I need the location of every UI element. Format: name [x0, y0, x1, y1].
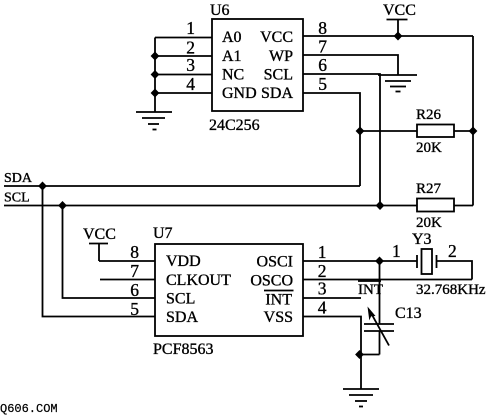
ground symbol under WP: [378, 75, 417, 92]
wire U7 pin 4 VSS down: [303, 317, 361, 355]
ground symbol bottom: [343, 355, 379, 407]
svg-text:1: 1: [392, 241, 401, 261]
wire U6 pin 7 to ground: [303, 55, 398, 75]
wire U7 pin 2 OSCO: [303, 279, 472, 281]
junction at U6 pin2 / left vertical: [151, 52, 160, 61]
svg-text:A1: A1: [222, 48, 242, 65]
svg-text:VDD: VDD: [166, 253, 201, 270]
svg-text:PCF8563: PCF8563: [153, 341, 213, 358]
junction SCL bus / U6 pin6 drop: [376, 201, 385, 210]
svg-text:SDA: SDA: [166, 309, 198, 326]
wire SDA drop to U7 pin5: [43, 186, 156, 317]
svg-text:VCC: VCC: [260, 29, 293, 46]
wire U6 pin 3 stub: [155, 74, 212, 76]
svg-text:SCL: SCL: [166, 291, 195, 308]
svg-text:8: 8: [318, 18, 327, 38]
wire U6 left bus vertical to ground: [154, 38, 156, 113]
svg-text:A0: A0: [222, 29, 242, 46]
svg-text:2: 2: [448, 241, 457, 261]
svg-text:CLKOUT: CLKOUT: [166, 272, 231, 289]
U7 pin name INT with overline: [264, 291, 294, 309]
svg-text:1: 1: [318, 242, 327, 262]
svg-text:OSCO: OSCO: [250, 273, 293, 290]
svg-text:Q606.COM: Q606.COM: [0, 402, 58, 415]
svg-text:U7: U7: [153, 225, 173, 242]
svg-text:VCC: VCC: [383, 2, 416, 19]
svg-text:4: 4: [318, 298, 327, 318]
wire U7 pin 1 OSCI to crystal: [303, 260, 417, 262]
crystal Y3: [417, 249, 437, 274]
wire SDA bus: [4, 185, 360, 187]
svg-text:INT: INT: [265, 292, 292, 309]
resistor R27: [417, 199, 473, 212]
IC U7 body box: [155, 244, 303, 336]
svg-text:3: 3: [318, 279, 327, 299]
svg-text:GND: GND: [222, 85, 257, 102]
ground symbol under U6 left pins: [136, 112, 172, 130]
svg-text:20K: 20K: [416, 215, 442, 231]
junction at R26 left / SDA drop: [356, 127, 365, 136]
junction VSS / C13 / ground: [355, 350, 364, 359]
wire crystal to right vertical: [437, 261, 473, 280]
net label INT with overline: [358, 281, 383, 298]
svg-text:SDA: SDA: [4, 171, 33, 186]
junction at U6 pin4 / left vertical: [151, 89, 160, 98]
junction at U6 pin3 / left vertical: [151, 70, 160, 79]
junction at VCC / pin8 wire: [394, 32, 403, 41]
VCC power symbol top: [383, 2, 416, 36]
wire U6 pin 8 (VCC rail): [303, 35, 473, 37]
junction at R26 right / VCC rail: [469, 127, 478, 136]
IC U6 body box: [212, 19, 303, 111]
svg-text:4: 4: [186, 74, 195, 94]
svg-text:U6: U6: [210, 2, 230, 19]
resistor R26: [360, 125, 473, 138]
svg-text:1: 1: [186, 18, 195, 38]
wire VCC to U7 pin 8: [99, 260, 155, 262]
wire U6 pin 1 stub: [155, 37, 212, 39]
svg-text:6: 6: [130, 280, 139, 300]
svg-text:32.768KHz: 32.768KHz: [416, 282, 486, 298]
svg-text:Y3: Y3: [412, 231, 432, 248]
wire U6 pin 4 stub: [155, 92, 212, 94]
wire SCL drop to U7 pin6: [63, 206, 156, 299]
wire U7 pin 7 stub CLKOUT: [100, 279, 155, 281]
svg-text:7: 7: [130, 261, 139, 281]
wire right vertical rail (pin8 to R26/R27): [472, 36, 474, 206]
svg-text:OSCI: OSCI: [257, 254, 293, 271]
svg-text:SCL: SCL: [264, 67, 293, 84]
svg-text:VCC: VCC: [83, 226, 116, 243]
wire SCL bus: [4, 205, 417, 207]
wire U6 pin 2 stub: [155, 55, 212, 57]
svg-text:SCL: SCL: [4, 191, 30, 206]
svg-text:5: 5: [318, 74, 327, 94]
svg-text:7: 7: [318, 37, 327, 57]
svg-text:R26: R26: [416, 107, 442, 123]
svg-text:5: 5: [130, 299, 139, 319]
svg-text:VSS: VSS: [264, 309, 293, 326]
svg-text:24C256: 24C256: [209, 117, 260, 134]
svg-text:20K: 20K: [416, 140, 442, 156]
svg-text:C13: C13: [395, 305, 422, 322]
svg-text:WP: WP: [269, 48, 293, 65]
junction SCL bus / U7 drop: [58, 201, 67, 210]
svg-text:R27: R27: [416, 181, 442, 197]
wire U7 pin 3 INT stub: [303, 297, 361, 299]
wire U6 pin 5 down to SDA bus: [303, 93, 360, 186]
junction SDA bus / U7 drop: [38, 182, 47, 191]
svg-text:8: 8: [130, 242, 139, 262]
svg-text:SDA: SDA: [261, 85, 293, 102]
capacitor C13 (trimmer): [360, 261, 395, 355]
junction OSCI / C13: [375, 257, 384, 266]
svg-text:6: 6: [318, 55, 327, 75]
svg-text:3: 3: [186, 55, 195, 75]
VCC power symbol for U7: [83, 226, 116, 261]
wire U6 pin 6 down to SCL bus: [303, 74, 380, 206]
svg-text:NC: NC: [222, 67, 244, 84]
